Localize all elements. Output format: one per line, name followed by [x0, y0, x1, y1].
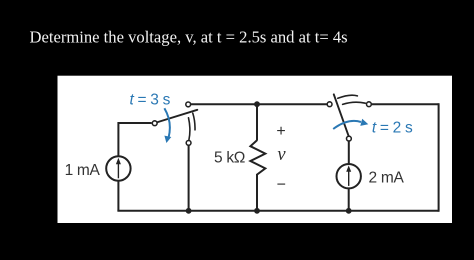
wire: 1 mA branch bottom — [117, 181, 119, 211]
wire: S2 bottom contact to 2 mA source — [348, 142, 350, 165]
label 2 mA — [369, 170, 405, 187]
white panel — [58, 76, 453, 223]
label v — [277, 145, 286, 165]
svg-text:1 mA: 1 mA — [65, 162, 101, 179]
node: bottom rail 2 mA junction — [346, 208, 352, 214]
wire: 2 mA source bottom — [348, 188, 350, 210]
switch S2 bottom contact — [347, 136, 352, 141]
switch S1 blue motion arrow — [164, 108, 171, 143]
current source I1 1 mA — [106, 156, 130, 180]
switch S1 top contact (node on top rail) — [186, 102, 191, 107]
switch S2 left contact (node on top rail) — [327, 102, 332, 107]
resistor R1 5 kOhm zigzag — [250, 140, 265, 176]
switch S2 blade — [334, 94, 349, 135]
wire: resistor branch top — [256, 104, 258, 140]
label 5 kOhm — [214, 150, 245, 167]
current source I2 2 mA — [337, 164, 361, 188]
wire: right edge — [438, 103, 440, 212]
switch S1 blade — [157, 110, 198, 123]
label t = 2 s — [372, 119, 413, 136]
svg-text:Determine the voltage, v, at t: Determine the voltage, v, at t = 2.5s an… — [30, 28, 348, 47]
switch S2 travel arc lower — [343, 102, 366, 104]
label 1 mA — [65, 162, 101, 179]
wire: top rail left segment — [191, 103, 327, 105]
node: bottom rail S1 junction — [186, 208, 192, 214]
switch S2 right contact (node on top rail) — [367, 102, 372, 107]
label minus — [277, 176, 286, 193]
switch S1 pivot contact — [152, 121, 157, 126]
wire: below S1 bottom contact — [188, 146, 190, 211]
switch S2 blue motion arrow — [333, 119, 368, 129]
svg-text:2 mA: 2 mA — [369, 170, 405, 187]
switch S1 travel arc outer — [193, 113, 195, 130]
svg-text:v: v — [277, 145, 286, 165]
svg-text:−: − — [277, 176, 286, 193]
svg-text:t = 2 s: t = 2 s — [372, 119, 413, 136]
node: top rail resistor junction — [254, 101, 260, 107]
switch S2 travel arc upper — [338, 95, 358, 98]
wire: resistor branch bottom — [256, 176, 258, 211]
title — [30, 28, 348, 47]
svg-text:5 kΩ: 5 kΩ — [214, 150, 245, 167]
label t = 3 s — [130, 92, 171, 109]
wire: 1 mA branch top + horizontal to switch pivot — [118, 123, 151, 156]
node: bottom rail resistor junction — [254, 208, 260, 214]
wire: top rail right segment — [372, 103, 439, 105]
switch S1 bottom contact — [186, 141, 191, 146]
wire: bottom rail — [117, 210, 438, 212]
label + — [276, 123, 285, 140]
switch S1 travel arc inner — [189, 118, 190, 140]
svg-text:+: + — [276, 123, 285, 140]
svg-text:t = 3 s: t = 3 s — [130, 92, 171, 109]
